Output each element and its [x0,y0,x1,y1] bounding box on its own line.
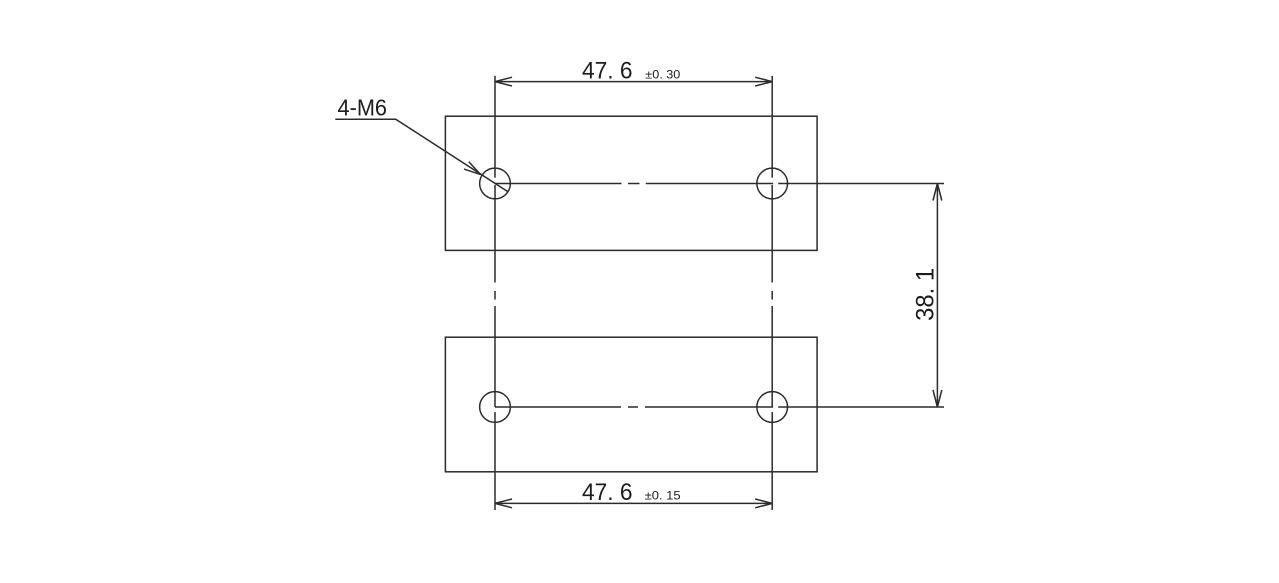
hole bottom-right [757,392,788,423]
top dimension left arrowhead [495,77,512,86]
svg-text:47. 6: 47. 6 [582,57,633,84]
hole bottom-left [480,392,511,423]
right vertical center/extension line [771,76,773,510]
leader arrowhead [464,162,481,175]
top dimension right arrowhead [755,77,772,86]
bottom dimension left arrowhead [495,499,512,508]
svg-text:47. 6: 47. 6 [582,479,633,506]
right vertical dimension line [936,184,938,408]
top plate outline [445,116,817,250]
bottom dimension right arrowhead [755,499,772,508]
right dimension top arrowhead [933,184,942,201]
right dimension bottom arrowhead [933,390,942,407]
left vertical center/extension line [494,76,496,510]
leader line 4-M6 [335,119,508,192]
svg-text:±0. 30: ±0. 30 [645,67,680,81]
svg-text:38. 1: 38. 1 [911,268,939,321]
bottom plate outline [445,337,817,472]
top row horizontal center line [495,183,944,185]
top dimension line [495,81,772,83]
bottom row horizontal center line [495,406,944,408]
hole top-left [480,168,511,199]
svg-text:4-M6: 4-M6 [338,95,388,121]
svg-text:±0. 15: ±0. 15 [645,489,681,503]
hole top-right [757,168,788,199]
bottom dimension line [495,502,772,504]
